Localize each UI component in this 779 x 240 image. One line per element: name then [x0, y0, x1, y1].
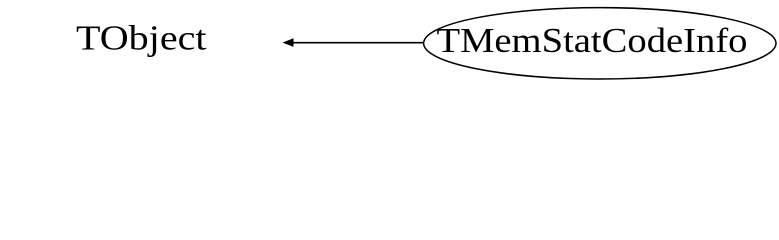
arrowhead pointing at TObject: [283, 38, 294, 47]
svg-text:TMemStatCodeInfo: TMemStatCodeInfo: [437, 22, 748, 60]
node TMemStatCodeInfo (ellipse border): [424, 8, 776, 79]
wire (inheritance arrow shaft from TMemStatCodeInfo to TObject): [292, 42, 423, 44]
svg-text:TObject: TObject: [76, 20, 207, 58]
